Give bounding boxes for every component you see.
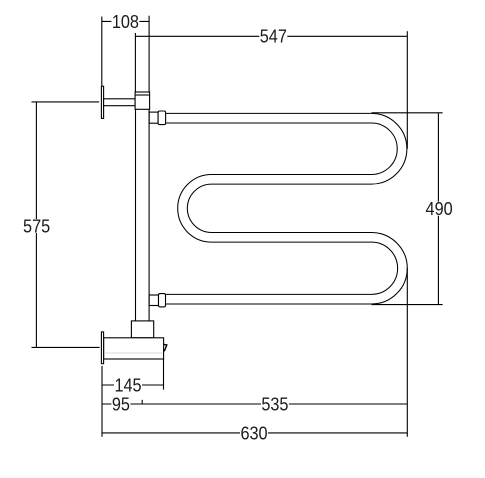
bottom wall plate	[101, 332, 103, 364]
svg-text:630: 630	[240, 422, 267, 443]
tick at pipe centre between 95 and 535	[141, 400, 143, 405]
top union sleeve	[158, 111, 166, 125]
extension line 145 right (bracket edge)	[163, 359, 165, 390]
extension line 490 top (collinear with tube top)	[372, 112, 443, 114]
serpentine heating tube (bore / white fill)	[166, 118, 403, 299]
extension line 490 bottom (collinear with tube bottom)	[372, 304, 443, 306]
bracket inner shade line	[104, 352, 163, 354]
bottom tube stub	[149, 295, 158, 306]
top collar fitting	[135, 92, 150, 109]
dimension line 630	[102, 432, 407, 434]
riser pipe upper left edge	[134, 33, 136, 92]
top collar inner ridge	[135, 94, 150, 96]
riser pipe mid section	[136, 109, 150, 321]
bottom union sleeve	[159, 294, 166, 307]
top mounting arm	[104, 99, 136, 106]
extension line right (tube right edge) upper segment	[406, 31, 408, 149]
extension line left of 108 (wall plate face)	[101, 17, 103, 87]
dimension line 490	[437, 113, 439, 305]
svg-text:108: 108	[112, 11, 139, 32]
top tube stub	[149, 112, 158, 123]
bottom collar fitting	[131, 321, 153, 338]
top wall plate	[101, 86, 103, 118]
svg-text:575: 575	[23, 215, 50, 236]
extension line left bottom (wall plate face)	[101, 366, 103, 437]
riser pipe upper right edge (also 108 right extension)	[148, 16, 150, 92]
extension line 575 bottom	[32, 346, 100, 348]
dimension line 95 / 535	[102, 403, 407, 405]
svg-text:547: 547	[260, 26, 287, 47]
bottom bracket body	[104, 338, 164, 359]
dimension line 575	[35, 102, 37, 348]
serpentine heating tube (outer outline)	[166, 118, 403, 299]
dimension line 108	[102, 20, 149, 22]
air vent valve mark	[164, 344, 167, 351]
dimension line 547	[135, 35, 407, 37]
text background masks	[23, 14, 454, 440]
svg-text:535: 535	[261, 393, 288, 414]
svg-text:490: 490	[426, 198, 453, 219]
dimension line 145	[102, 384, 164, 386]
extension line 575 top	[32, 101, 100, 103]
extension line right (tube right edge) lower segment	[406, 268, 408, 437]
svg-text:95: 95	[112, 393, 130, 414]
